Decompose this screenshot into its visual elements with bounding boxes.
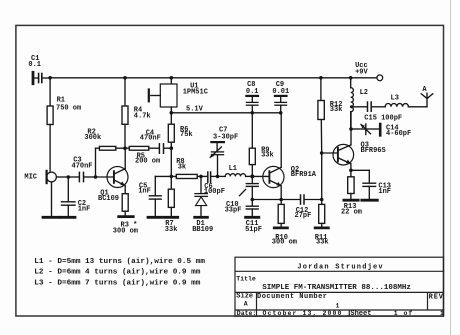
svg-text:33k: 33k [330, 106, 343, 114]
svg-text:L3: L3 [391, 94, 399, 102]
svg-text:L1 - D=5mm 13 turns (air),wire: L1 - D=5mm 13 turns (air),wire 0.5 mm [34, 258, 205, 266]
svg-text:33pF: 33pF [225, 206, 242, 214]
svg-text:1nF: 1nF [78, 206, 91, 214]
antenna A [421, 86, 433, 107]
svg-text:Document Number: Document Number [257, 293, 328, 301]
junction Q1 base node [94, 175, 98, 179]
capacitor C12 [295, 195, 322, 220]
wire L2 tap to C15 [352, 106, 367, 108]
junction C14 node [349, 127, 353, 131]
ground (R7) [164, 216, 178, 219]
ground (R10) [274, 226, 287, 229]
junction R2/R4/R5 collector node [123, 146, 127, 150]
capacitor C15 [364, 102, 402, 122]
wire MIC output [56, 176, 68, 178]
capacitor C3 [68, 157, 95, 182]
svg-text:+9V: +9V [355, 68, 368, 76]
svg-text:0.1: 0.1 [246, 88, 259, 96]
svg-text:Sheet: Sheet [350, 310, 371, 318]
junction C8/5.1V [251, 111, 255, 115]
svg-text:October 13, 2000: October 13, 2000 [263, 310, 343, 317]
svg-text:1: 1 [336, 303, 340, 310]
junction R7/R8 node [170, 175, 174, 179]
junction Q3 emitter node [349, 169, 353, 173]
svg-text:200 om: 200 om [135, 158, 160, 166]
svg-text:75k: 75k [180, 131, 193, 139]
svg-text:MIC: MIC [24, 174, 37, 182]
svg-text:100pF: 100pF [204, 188, 225, 196]
voltage regulator U1 [149, 78, 208, 113]
svg-text:4.7k: 4.7k [134, 112, 151, 120]
svg-text:BB109: BB109 [192, 226, 213, 234]
resistor R12 [318, 78, 343, 153]
capacitor C10 [225, 176, 259, 214]
svg-text:REV: REV [429, 293, 444, 301]
diode D1 varicap [192, 176, 213, 233]
junction C4/R6 node [170, 146, 174, 150]
junction C2 node [67, 175, 71, 179]
svg-text:33k: 33k [165, 226, 178, 234]
resistor R10 [272, 200, 297, 247]
resistor R8 [176, 158, 201, 178]
inductor L1 [218, 165, 253, 176]
svg-text:33k: 33k [316, 239, 329, 247]
wire 5.1V rail [171, 112, 280, 114]
svg-text:Jordan Strundjev: Jordan Strundjev [297, 264, 383, 272]
wire emitter line [252, 199, 300, 201]
svg-text:1 of: 1 of [394, 310, 414, 317]
capacitor C5 [138, 176, 161, 216]
capacitor C2 [62, 177, 91, 216]
resistor R5 [125, 146, 160, 165]
svg-text:1nF: 1nF [138, 187, 151, 195]
svg-text:27pF: 27pF [295, 212, 312, 220]
resistor R3 [113, 194, 138, 236]
svg-text:A: A [244, 300, 248, 307]
svg-text:L2 - D=6mm 4 turns (air),wire: L2 - D=6mm 4 turns (air),wire 0.9 mm [34, 269, 200, 277]
svg-text:51pF: 51pF [245, 226, 262, 234]
svg-text:0.01: 0.01 [272, 88, 289, 96]
svg-text:1nF: 1nF [378, 188, 391, 196]
ground (MIC) [43, 216, 60, 219]
wire top rail +9V [50, 77, 377, 79]
capacitor C11 [245, 200, 262, 234]
capacitor C9 [272, 81, 289, 113]
wire Q3 collector riser [350, 112, 352, 145]
svg-text:0.1: 0.1 [28, 61, 41, 69]
junction C10/C11 node [251, 198, 255, 202]
resistor R13 [341, 170, 362, 216]
capacitor C6 [201, 172, 225, 196]
wire emitter to C13 [351, 169, 369, 171]
resistor R4 [122, 78, 151, 148]
resistor R11 [315, 200, 329, 247]
title block texts [236, 264, 444, 318]
ground (C11) [246, 216, 259, 219]
ground (C2) [62, 216, 76, 219]
ground (D1) [195, 216, 208, 219]
junction C9/Q2 collector [279, 111, 283, 115]
svg-text:470nF: 470nF [72, 162, 93, 170]
junction U1 top rail [170, 76, 174, 80]
svg-text:R1: R1 [57, 97, 65, 105]
wire Q2 collector riser [280, 113, 282, 167]
junction L2 tap [350, 105, 353, 108]
svg-text:BC109: BC109 [98, 195, 119, 203]
svg-text:22 om: 22 om [341, 209, 362, 217]
ground (C13) [362, 199, 378, 202]
svg-text:300 om: 300 om [113, 228, 138, 236]
transistor Q1 [96, 167, 129, 204]
page edge line [450, 0, 452, 335]
ground (R13) [344, 199, 358, 202]
junction U1/R6 [170, 111, 174, 115]
svg-text:1: 1 [440, 310, 444, 317]
junction C12/R11 [320, 198, 324, 202]
resistor R9 [249, 113, 273, 177]
svg-text:BFR96S: BFR96S [361, 147, 386, 155]
resistor R2 [84, 128, 125, 150]
wire C5/R8 node line [155, 175, 176, 177]
inductor L2 [351, 78, 368, 129]
capacitor C4 [140, 130, 172, 154]
coil winding notes [34, 258, 205, 287]
svg-text:300k: 300k [84, 134, 101, 142]
capacitor C7 trimmer [210, 127, 238, 177]
ground (R3) [119, 215, 134, 218]
svg-text:SIMPLE FM-TRANSMITTER 88...108: SIMPLE FM-TRANSMITTER 88...108MHz [262, 284, 411, 292]
capacitor C13 [363, 170, 391, 199]
wire R6 to varicap node [170, 148, 172, 176]
svg-text:Title: Title [236, 275, 256, 282]
transistor Q2 [252, 166, 317, 199]
capacitor C1 [28, 55, 50, 84]
svg-text:1PM51C: 1PM51C [183, 88, 208, 96]
microphone MIC [24, 171, 56, 216]
svg-text:470nF: 470nF [140, 135, 161, 143]
svg-text:3-30pF: 3-30pF [213, 133, 238, 141]
title block [235, 257, 444, 316]
svg-text:5.1V: 5.1V [186, 105, 204, 113]
svg-text:33k: 33k [261, 151, 274, 159]
junction Q2 emitter/R10 [279, 198, 283, 202]
resistor R6 [168, 113, 192, 148]
junction C7 node [216, 175, 220, 179]
transistor Q3 [322, 142, 386, 171]
junction tank node [250, 174, 254, 178]
junction R12 top rail [319, 76, 323, 80]
svg-text:4-60pF: 4-60pF [386, 130, 411, 138]
svg-text:BFR91A: BFR91A [291, 171, 317, 179]
resistor R1 [47, 78, 81, 172]
ground (R11) [315, 226, 328, 229]
junction D1 node [199, 175, 203, 179]
capacitor C14 trimmer [351, 124, 411, 138]
svg-text:L1: L1 [229, 165, 237, 173]
svg-text:Date:: Date: [237, 310, 257, 317]
svg-text:L3 - D=6mm 7 turns (air),wire: L3 - D=6mm 7 turns (air),wire 0.9 mm [34, 279, 200, 287]
svg-text:C15 100pF: C15 100pF [364, 114, 402, 122]
svg-text:L2: L2 [360, 89, 368, 97]
svg-text:750 om: 750 om [56, 105, 81, 113]
svg-text:300 om: 300 om [272, 239, 297, 247]
resistor R7 [165, 176, 178, 233]
junction L2 top rail [349, 76, 353, 80]
junction C1/R1 [48, 76, 52, 80]
junction R4 top rail [123, 76, 127, 80]
capacitor C8 [246, 81, 259, 113]
svg-text:3k: 3k [178, 163, 186, 171]
node Ucc +9V terminal [355, 62, 383, 81]
wire R11 to Q3 base [321, 153, 323, 200]
ground (C5) [148, 216, 162, 219]
wire R2 feedback riser [95, 148, 97, 177]
wire Q1 collector [124, 148, 126, 169]
junction Q3 base node [320, 151, 324, 155]
inductor L3 [385, 94, 427, 106]
